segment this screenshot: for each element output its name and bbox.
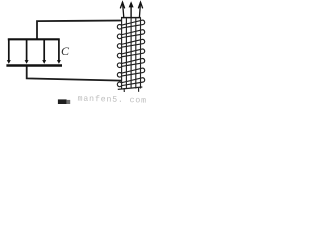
coil vertical line 5 (right rail) <box>140 18 142 89</box>
coil vertical line 3 (middle) <box>130 18 132 89</box>
field arrow up middle <box>129 1 134 17</box>
coil winding turn 1 <box>117 20 144 29</box>
field arrow 3 <box>42 40 46 64</box>
field arrow 2 <box>25 40 29 64</box>
field arrow up left <box>120 2 124 17</box>
coil vertical line 4 <box>135 18 137 89</box>
capacitor C top plate <box>8 38 60 40</box>
coil winding bottom closing stroke <box>118 87 143 89</box>
coil winding turn 4 <box>117 49 144 58</box>
coil winding turn 6 <box>117 68 144 77</box>
wire top: capacitor top plate up and right to coil <box>37 21 122 40</box>
coil vertical line 1 (left rail) <box>121 18 123 89</box>
coil winding turn 3 <box>117 39 144 48</box>
caption glyph (clipped Chinese character) <box>58 99 67 104</box>
capacitor C bottom plate <box>6 64 62 66</box>
coil vertical line 2 <box>125 18 127 89</box>
coil winding turn 5 <box>117 59 144 68</box>
coil L body: top edge <box>121 17 141 19</box>
field arrow 4 (right edge) <box>57 39 61 64</box>
field arrow up right <box>138 2 142 17</box>
coil winding turn 2 <box>117 30 144 39</box>
svg-text:C: C <box>61 44 70 58</box>
coil winding turn 7 <box>117 78 144 87</box>
field arrow 1 (left edge) <box>7 39 11 64</box>
svg-text:manfen5. com: manfen5. com <box>77 94 147 104</box>
coil winding bottom-right tail <box>138 88 140 92</box>
wire bottom: capacitor bottom plate down and right to coil <box>27 66 122 81</box>
coil winding bottom-left tail <box>123 88 125 92</box>
